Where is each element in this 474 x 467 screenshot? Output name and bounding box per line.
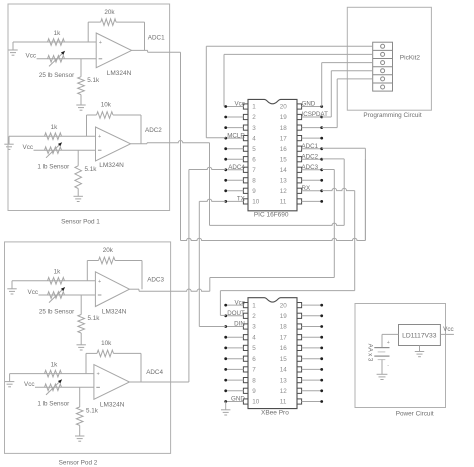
svg-text:RX: RX — [302, 185, 311, 192]
svg-text:15: 15 — [280, 156, 288, 163]
svg-text:8: 8 — [252, 377, 256, 384]
svg-text:20: 20 — [280, 104, 288, 111]
svg-text:20: 20 — [280, 302, 288, 309]
svg-text:ADC1: ADC1 — [148, 34, 165, 41]
svg-text:GND: GND — [302, 101, 316, 108]
svg-text:LM324N: LM324N — [100, 401, 125, 408]
svg-text:+: + — [99, 40, 102, 46]
svg-text:3: 3 — [252, 324, 256, 331]
svg-text:PicKit2: PicKit2 — [400, 54, 421, 61]
svg-text:5.1k: 5.1k — [88, 315, 101, 322]
svg-text:ADC2: ADC2 — [145, 127, 162, 134]
svg-text:1: 1 — [252, 104, 256, 111]
svg-text:5.1k: 5.1k — [86, 407, 99, 414]
svg-text:18: 18 — [280, 324, 288, 331]
svg-text:1 lb Sensor: 1 lb Sensor — [37, 401, 69, 408]
svg-text:-: - — [387, 363, 389, 369]
svg-text:8: 8 — [252, 178, 256, 185]
svg-text:11: 11 — [280, 399, 287, 406]
svg-text:4: 4 — [252, 334, 256, 341]
svg-text:16: 16 — [280, 146, 288, 153]
svg-text:9: 9 — [252, 388, 256, 395]
svg-text:+: + — [98, 279, 101, 285]
svg-text:XBee Pro: XBee Pro — [261, 410, 289, 417]
svg-text:20k: 20k — [104, 9, 115, 16]
svg-text:12: 12 — [280, 388, 288, 395]
svg-text:5.1k: 5.1k — [87, 77, 100, 84]
svg-text:5: 5 — [252, 345, 256, 352]
svg-text:Vcc: Vcc — [24, 381, 35, 388]
svg-text:9: 9 — [252, 188, 256, 195]
svg-text:GND: GND — [231, 396, 245, 403]
svg-text:LD1117V33: LD1117V33 — [402, 333, 437, 340]
svg-text:25 lb Sensor: 25 lb Sensor — [39, 72, 74, 79]
svg-text:25 lb Sensor: 25 lb Sensor — [39, 308, 74, 315]
svg-text:ADC4: ADC4 — [146, 369, 163, 376]
svg-text:6: 6 — [252, 356, 256, 363]
svg-text:1k: 1k — [51, 361, 59, 368]
svg-text:6: 6 — [252, 156, 256, 163]
svg-text:Vcc: Vcc — [443, 326, 454, 333]
svg-text:3: 3 — [252, 125, 256, 132]
svg-text:Vcc: Vcc — [23, 144, 34, 151]
svg-text:12: 12 — [280, 188, 288, 195]
svg-text:5: 5 — [252, 146, 256, 153]
svg-text:Vcc: Vcc — [234, 299, 244, 306]
svg-text:10: 10 — [252, 399, 260, 406]
svg-text:4: 4 — [252, 135, 256, 142]
svg-text:+: + — [387, 340, 390, 346]
svg-text:1 lb Sensor: 1 lb Sensor — [37, 164, 69, 171]
svg-text:16: 16 — [280, 345, 288, 352]
svg-text:MCLR: MCLR — [227, 132, 245, 139]
svg-text:LM324N: LM324N — [102, 309, 127, 316]
svg-text:7: 7 — [252, 367, 256, 374]
svg-text:DOUT: DOUT — [227, 310, 245, 317]
svg-text:7: 7 — [252, 167, 256, 174]
svg-text:PIC 16F690: PIC 16F690 — [254, 212, 289, 219]
svg-text:13: 13 — [280, 178, 288, 185]
svg-text:ADC3: ADC3 — [302, 164, 319, 171]
svg-text:1k: 1k — [51, 124, 59, 131]
svg-text:10k: 10k — [101, 340, 112, 347]
svg-text:Sensor Pod 1: Sensor Pod 1 — [61, 218, 100, 225]
svg-text:17: 17 — [280, 135, 288, 142]
svg-text:ADC3: ADC3 — [147, 277, 164, 284]
svg-text:2: 2 — [252, 114, 256, 121]
svg-text:DIN: DIN — [234, 321, 245, 328]
svg-text:14: 14 — [280, 367, 288, 374]
svg-text:LM324N: LM324N — [99, 162, 124, 169]
svg-text:1: 1 — [252, 302, 256, 309]
svg-text:Vcc: Vcc — [28, 289, 39, 296]
svg-text:2: 2 — [252, 313, 256, 320]
svg-text:ADC4: ADC4 — [228, 164, 245, 171]
svg-text:LM324N: LM324N — [107, 70, 132, 77]
svg-text:20k: 20k — [103, 247, 114, 254]
svg-text:19: 19 — [280, 313, 288, 320]
svg-text:Vcc: Vcc — [26, 53, 37, 60]
svg-text:15: 15 — [280, 356, 288, 363]
svg-text:10k: 10k — [101, 102, 112, 109]
svg-text:ADC2: ADC2 — [302, 153, 319, 160]
svg-text:Sensor Pod 2: Sensor Pod 2 — [59, 459, 98, 466]
svg-text:19: 19 — [280, 114, 288, 121]
svg-text:ADC1: ADC1 — [302, 143, 319, 150]
svg-text:11: 11 — [280, 199, 287, 206]
svg-text:14: 14 — [280, 167, 288, 174]
svg-text:+: + — [96, 372, 99, 378]
svg-text:17: 17 — [280, 334, 288, 341]
svg-text:1k: 1k — [54, 269, 62, 276]
svg-text:1k: 1k — [54, 30, 62, 37]
svg-text:Vcc: Vcc — [234, 101, 244, 108]
svg-text:AA x 3: AA x 3 — [366, 344, 373, 362]
svg-text:Power Circuit: Power Circuit — [396, 411, 434, 418]
svg-text:13: 13 — [280, 377, 288, 384]
svg-text:TX: TX — [237, 196, 245, 203]
svg-text:Programming Circuit: Programming Circuit — [363, 112, 421, 119]
svg-text:5.1k: 5.1k — [85, 166, 98, 173]
svg-text:18: 18 — [280, 125, 288, 132]
svg-text:+: + — [98, 134, 101, 140]
svg-text:10: 10 — [252, 199, 260, 206]
